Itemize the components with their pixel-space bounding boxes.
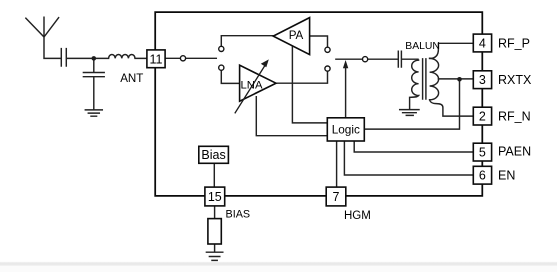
svg-text:BIAS: BIAS [226,209,251,221]
svg-text:EN: EN [498,169,515,183]
svg-text:5: 5 [479,146,486,160]
svg-text:15: 15 [208,190,222,204]
svg-text:BALUN: BALUN [405,41,440,52]
svg-text:RF_N: RF_N [498,110,531,124]
svg-text:PAEN: PAEN [498,145,531,159]
svg-text:RF_P: RF_P [498,36,530,50]
svg-text:2: 2 [479,110,486,124]
svg-text:7: 7 [333,190,340,204]
svg-text:PA: PA [289,29,304,42]
svg-text:Bias: Bias [201,148,225,162]
svg-text:3: 3 [479,73,486,87]
svg-text:11: 11 [150,52,163,66]
svg-text:LNA: LNA [241,79,263,91]
svg-text:HGM: HGM [344,210,371,222]
svg-text:RXTX: RXTX [498,73,532,87]
svg-text:ANT: ANT [120,72,143,85]
svg-text:Logic: Logic [332,122,360,136]
svg-text:4: 4 [479,36,486,50]
svg-text:6: 6 [479,169,486,183]
